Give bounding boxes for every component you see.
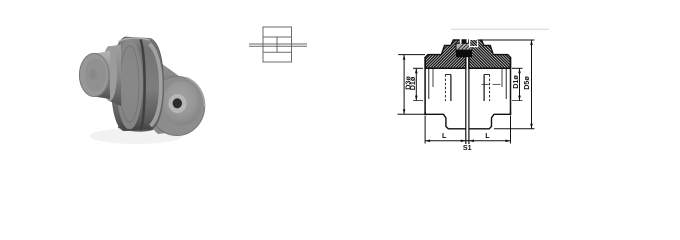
svg-text:L: L [442, 131, 447, 140]
bore hole [173, 98, 182, 108]
dimension D1 right line with arrows [518, 68, 521, 100]
symbol mid vertical [276, 37, 278, 52]
flange disc block [112, 37, 164, 131]
hub step ring face crescent [102, 46, 117, 101]
right disc edge shade [147, 39, 163, 130]
symbol outer box [263, 27, 292, 62]
svg-text:D1ø: D1ø [511, 75, 520, 89]
hub step ring [108, 45, 121, 107]
dark nub on sleeve top [462, 40, 466, 44]
dimension D5 line with arrows [530, 40, 533, 129]
symbol upper inner line [263, 36, 292, 38]
bore step lines left hub [429, 68, 451, 101]
svg-text:S1: S1 [463, 143, 472, 152]
dimension D1 right extension lines [512, 67, 523, 69]
dimension D3 extension lines [398, 54, 425, 56]
elastomer gap between discs [141, 40, 145, 131]
L dimension extension verticals [424, 116, 426, 144]
shaft line upper [249, 43, 307, 45]
right hub cylinder body [148, 58, 184, 125]
white gap above pin head [470, 38, 481, 39]
slot left of sleeve [460, 39, 462, 44]
bore step lines right hub [482, 68, 507, 101]
left disc face crescent [117, 39, 143, 130]
sleeve lower dark band [456, 50, 472, 57]
svg-text:D5ø: D5ø [522, 76, 531, 90]
svg-text:L: L [485, 131, 490, 140]
right disc bright rim [150, 44, 162, 126]
right hub end face [162, 81, 202, 126]
dimension D5 extension lines [478, 39, 535, 41]
bore line right hub [469, 67, 511, 69]
left hub boss cylinder [94, 51, 110, 99]
S1 gap flange faces and extensions [466, 57, 469, 144]
disc bottom shade [118, 127, 153, 131]
dimension D3 line with arrows [403, 55, 406, 115]
hatched section right half [469, 40, 511, 68]
counterbore ring [168, 94, 187, 114]
svg-text:D1ø: D1ø [408, 76, 417, 90]
pin retaining head [470, 39, 478, 46]
left hub face edge [424, 57, 426, 114]
elastic sleeve on pin [456, 43, 472, 50]
faint scan line [451, 28, 549, 30]
photo faint ground shade [90, 128, 182, 144]
under-disc dark patch [148, 118, 166, 134]
dimension D1 left extension lines [413, 67, 423, 69]
left hub boss face [79, 53, 109, 96]
bore line left hub [425, 67, 466, 69]
bottom outline left hub [425, 112, 466, 129]
bottom outline right hub [469, 112, 511, 129]
right hub face edge [510, 57, 512, 114]
dimension D1 left line with arrows [415, 68, 418, 100]
right hub step ring [149, 77, 204, 136]
L dimension line with arrows [425, 140, 510, 143]
shaft line lower [249, 45, 307, 47]
disc top highlight [118, 38, 150, 42]
symbol lower inner line [263, 51, 292, 53]
hatched section left half [425, 40, 466, 68]
